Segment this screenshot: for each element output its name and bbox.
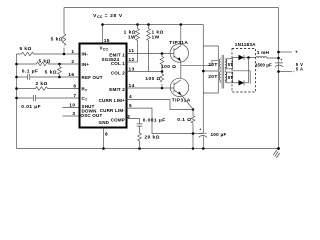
node output plus dot <box>277 51 280 54</box>
node emit2 dot <box>161 87 164 90</box>
resistor R 100 ohm upper <box>160 54 164 72</box>
svg-text:20 kΩ: 20 kΩ <box>145 135 160 141</box>
resistor R 5k feedback vertical <box>62 8 66 55</box>
svg-text:5 kΩ: 5 kΩ <box>39 59 51 65</box>
svg-text:5T: 5T <box>228 62 233 67</box>
resistor R 1k 1W no1 <box>136 25 140 63</box>
svg-text:2 kΩ: 2 kΩ <box>36 81 48 87</box>
svg-text:1W: 1W <box>128 35 136 41</box>
node center tap dot <box>202 70 205 73</box>
svg-text:+: + <box>199 128 201 132</box>
wire feedback top line <box>64 7 279 9</box>
svg-text:COL 1: COL 1 <box>111 61 125 66</box>
resistor R 5k vertical divider <box>58 64 62 77</box>
svg-text:CURR LIM+: CURR LIM+ <box>99 98 126 103</box>
wire ground rail <box>17 148 279 150</box>
svg-text:5 A: 5 A <box>296 66 304 71</box>
capacitor C 1500uF <box>275 63 283 67</box>
svg-text:12: 12 <box>129 57 135 63</box>
wire cathode join <box>248 58 250 83</box>
svg-text:5 kΩ: 5 kΩ <box>20 46 32 52</box>
node bus dot line5 <box>15 97 18 100</box>
node bus dot line3 <box>15 76 18 79</box>
diode D2 <box>233 82 249 84</box>
svg-text:1N1183A: 1N1183A <box>235 42 256 47</box>
svg-text:14: 14 <box>129 83 135 89</box>
svg-text:REF OUT: REF OUT <box>82 75 103 80</box>
wire Vcc rail <box>103 24 204 26</box>
transformer T1 primary box upper <box>203 46 218 71</box>
capacitor C 0.1uF ref bypass <box>17 74 60 80</box>
transformer secondary box upper <box>227 59 233 69</box>
node IN- junction <box>63 53 66 56</box>
wire Q1 emitter down and jog to primary top <box>181 60 219 65</box>
wire pin10 stub <box>63 107 80 109</box>
svg-text:CURR LIM-: CURR LIM- <box>100 108 126 113</box>
node rail junction dots <box>101 23 104 26</box>
svg-text:IN-: IN- <box>82 52 89 57</box>
wire pin2 comp <box>127 119 140 124</box>
svg-text:5T: 5T <box>228 75 233 80</box>
diode D1 <box>233 57 256 59</box>
wire left ground bus <box>16 54 18 149</box>
node 100ohm mid dot <box>161 70 164 73</box>
svg-text:EMIT 1: EMIT 1 <box>109 52 125 57</box>
svg-text:COL 2: COL 2 <box>111 70 125 75</box>
svg-text:6: 6 <box>73 84 76 90</box>
svg-text:2: 2 <box>127 114 130 120</box>
wire pin13 col2 <box>127 71 163 73</box>
wire output plus terminal <box>279 51 293 53</box>
svg-text:EMIT 2: EMIT 2 <box>109 87 125 92</box>
svg-text:11: 11 <box>129 48 135 54</box>
wire secondary center tap <box>233 71 251 84</box>
node emit1 dot <box>161 52 164 55</box>
ground chassis symbol <box>273 150 280 158</box>
wire pin15 Vcc feed <box>102 25 104 44</box>
svg-text:5 kΩ: 5 kΩ <box>51 37 63 43</box>
transformer secondary coil <box>225 59 226 83</box>
transformer secondary box lower <box>227 72 233 83</box>
resistor R 5k IN- horizontal <box>17 52 80 56</box>
node ground dots <box>102 147 105 150</box>
node output minus dot <box>277 70 280 73</box>
svg-text:COMP: COMP <box>111 118 125 123</box>
wire pin3 stub <box>63 115 80 117</box>
capacitor C 100uF input filter <box>199 133 207 148</box>
wire pin4 curr lim+ <box>127 100 194 110</box>
svg-text:10: 10 <box>69 103 75 109</box>
diode rectifier dashed box <box>232 49 256 93</box>
svg-text:1 mH: 1 mH <box>257 50 270 56</box>
resistor R 0.1 ohm sense <box>191 110 195 149</box>
svg-text:4: 4 <box>129 94 132 100</box>
wire output bus right <box>278 8 280 149</box>
node IN+ junction <box>58 63 61 66</box>
wire Q1 emitter to Q2 collector <box>180 65 182 78</box>
svg-text:3: 3 <box>72 111 75 117</box>
wire ref out to IC <box>60 76 80 78</box>
svg-text:20T: 20T <box>208 62 218 68</box>
svg-text:IN+: IN+ <box>82 62 90 67</box>
node sense tap dot <box>192 132 195 135</box>
resistor R 1k 1W no2 <box>147 25 151 72</box>
svg-text:1W: 1W <box>152 35 160 41</box>
node bus dot line4 <box>15 87 18 90</box>
svg-text:2: 2 <box>71 59 74 65</box>
resistor R 100 ohm lower <box>160 72 164 89</box>
wire pin12 col1 <box>127 61 138 63</box>
svg-text:13: 13 <box>129 67 135 73</box>
op-amp U1 SG3524 box <box>80 44 127 128</box>
svg-text:100 μF: 100 μF <box>211 132 227 137</box>
svg-text:0.01 μF: 0.01 μF <box>21 104 41 110</box>
svg-text:+: + <box>280 58 282 62</box>
wire pin5 curr lim- <box>127 108 194 133</box>
wire Vcc rail drop to center tap bus <box>202 25 204 134</box>
svg-text:TIP31A: TIP31A <box>169 40 188 46</box>
svg-text:0.001 μF: 0.001 μF <box>143 117 166 123</box>
wire pin14 emit2 to Q2 base <box>127 87 175 89</box>
node D1 cathode dot <box>247 56 250 59</box>
svg-text:100 Ω: 100 Ω <box>145 76 160 82</box>
wire pin8 gnd <box>103 128 105 149</box>
wire pin5 leg to bus <box>193 133 203 135</box>
svg-text:5 kΩ: 5 kΩ <box>45 70 57 76</box>
node ref junction <box>58 76 61 79</box>
node bus dot line2 <box>15 63 18 66</box>
resistor R 5k IN+ horizontal <box>17 62 80 66</box>
svg-text:OSC OUT: OSC OUT <box>81 113 103 118</box>
capacitor C 0.01uF CT <box>17 95 80 101</box>
svg-text:0.1 μF: 0.1 μF <box>22 69 39 75</box>
svg-text:1500 μF: 1500 μF <box>255 62 272 67</box>
svg-text:8: 8 <box>105 132 108 138</box>
wire Q1 collector to rail <box>180 25 182 46</box>
svg-text:16: 16 <box>68 72 74 78</box>
node inductor out dot <box>277 57 280 60</box>
capacitor C 0.001uF comp <box>137 124 143 126</box>
node Q2 emitter dot <box>192 108 195 111</box>
resistor R 2k RT <box>17 87 80 91</box>
wire output minus terminal <box>279 71 293 73</box>
wire pin11 emit1 to Q1 base <box>127 53 174 55</box>
resistor R 20k comp <box>138 126 142 148</box>
svg-text:0.1 Ω: 0.1 Ω <box>177 117 191 123</box>
svg-text:7: 7 <box>73 93 76 99</box>
svg-text:GND: GND <box>99 120 110 125</box>
svg-text:1: 1 <box>71 49 74 55</box>
transformer core <box>222 55 224 89</box>
transformer T1 primary box lower <box>203 71 218 93</box>
svg-text:5: 5 <box>129 103 132 109</box>
transformer primary coil <box>219 59 220 83</box>
svg-text:20T: 20T <box>208 74 218 80</box>
svg-text:100 Ω: 100 Ω <box>161 64 176 70</box>
